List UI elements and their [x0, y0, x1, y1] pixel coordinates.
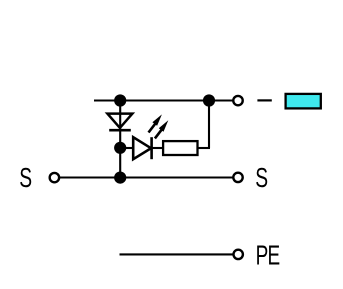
wire: LED cathode to resistor — [152, 147, 165, 149]
wire: top bus horizontal — [94, 99, 233, 101]
wire: vertical branch through diode from top bus to S bus — [119, 101, 121, 178]
wire: PE bus horizontal — [120, 253, 234, 255]
wire: resistor to right riser — [197, 147, 210, 149]
LED emission arrow 1 — [149, 114, 162, 132]
dash: minus marker — [257, 99, 271, 101]
svg-text:S: S — [255, 164, 268, 194]
LED emission arrow 2 — [155, 120, 168, 138]
svg-text:PE: PE — [256, 241, 280, 271]
terminal: S left open circle — [50, 173, 59, 182]
LED D2: light emitting diode pointing right — [133, 137, 151, 159]
wire: right riser up to top bus — [208, 101, 210, 149]
terminal: top clamp open circle — [233, 96, 242, 105]
resistor R1 — [163, 141, 197, 155]
diode D1: vertical protection diode (anode top) — [107, 114, 132, 131]
node B: junction top-right — [203, 94, 215, 106]
terminal: S right open circle — [233, 173, 242, 182]
wire: S bus horizontal — [59, 176, 233, 178]
marking field: cyan rectangle — [286, 94, 321, 109]
node C: junction mid (LED branch) — [114, 142, 126, 154]
node A: junction top-left — [114, 94, 126, 106]
node D: junction on S bus — [114, 172, 126, 184]
wire: LED anode feed from node C — [120, 147, 134, 149]
svg-text:S: S — [19, 164, 32, 194]
terminal: PE open circle — [234, 250, 243, 259]
